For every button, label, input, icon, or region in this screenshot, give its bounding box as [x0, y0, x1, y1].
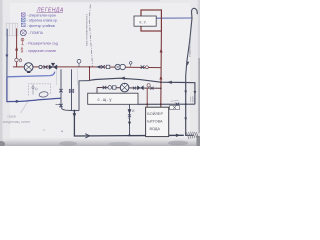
valve X8 on H3: [133, 87, 136, 90]
three-way mixing valve: [49, 63, 57, 70]
small meter box: [170, 106, 180, 110]
manifold box CUU: [88, 93, 138, 104]
node header/R2: [160, 103, 162, 105]
supply drop to return header: [89, 67, 91, 81]
node drop/bottom: [129, 134, 131, 136]
cold water drop: [186, 82, 194, 135]
faint riser VA upper: [56, 69, 58, 86]
node H1/drop: [89, 66, 91, 68]
valve X3 on H1: [141, 65, 145, 68]
node header/drop147: [146, 103, 148, 105]
burner stem inside boiler box: [32, 84, 34, 94]
legend symbol: pump circle: [20, 30, 26, 36]
radiator outline top-left: [6, 23, 18, 36]
filter box 2: [112, 86, 116, 89]
pump P1: [24, 63, 33, 72]
svg-text:студена вода: студена вода: [188, 38, 192, 57]
node H3/R2: [160, 87, 162, 89]
svg-text:кондензац. котел: кондензац. котел: [3, 120, 30, 124]
arrow right on bottom pipe: [85, 134, 90, 138]
riser V1 (return from radiator): [6, 29, 8, 77]
supply header H1: [13, 66, 161, 69]
riser VC: [79, 81, 90, 111]
legend title ЛЕГЕНДА: [36, 8, 64, 14]
legend symbol: valve box 1: [21, 13, 25, 16]
gauge g3: [108, 86, 112, 90]
meter circles on H1: [115, 64, 120, 69]
merge bar: [72, 110, 80, 112]
top blue line to vent: [157, 17, 192, 19]
gas boiler dashed enclosure: [28, 84, 50, 96]
annotation mark: [132, 110, 134, 113]
node header/cold: [185, 103, 187, 105]
gauge g2 on H1: [145, 66, 148, 69]
header H3: [97, 87, 161, 90]
boiler room frame (red box): [141, 10, 161, 31]
drop from H3 to tank: [146, 88, 148, 107]
right recirculation loop: [186, 83, 195, 105]
paper background: [0, 0, 200, 146]
svg-text:- Разширителен съд: - Разширителен съд: [26, 41, 58, 45]
bottom scan shadow band: [0, 137, 200, 146]
filter box on H1: [106, 65, 110, 68]
svg-text:- ПОМПА: - ПОМПА: [28, 31, 43, 35]
arrow left on H4: [120, 77, 125, 80]
bottom-left corner smudge: [0, 141, 5, 147]
arrow up on R2 upper: [160, 48, 163, 52]
valve X5 on drop: [128, 114, 131, 117]
check valve dark: [137, 85, 143, 90]
gauge on V2: [17, 57, 21, 59]
arrow left on H4 right: [167, 81, 172, 84]
gate valve XB: [69, 89, 73, 93]
boiler blob scribble: [39, 91, 49, 97]
riser VB: [71, 69, 73, 110]
boiler tank box: [146, 107, 169, 136]
svg-text:към отоплителна инст.: към отоплителна инст.: [85, 14, 89, 46]
svg-text:БИТОВА: БИТОВА: [147, 120, 163, 124]
valve X4: [103, 86, 107, 89]
valve XA: [59, 89, 62, 92]
svg-text:- спирателен кран: - спирателен кран: [27, 14, 56, 18]
K.U. box: [134, 16, 156, 26]
arrow up on V2: [15, 46, 18, 50]
label leader line: [21, 99, 30, 113]
arrow down on V1: [6, 55, 9, 59]
H3 drop into CUU: [96, 88, 98, 94]
legend symbol: valve box 2: [21, 18, 25, 21]
heating branch centerline: [90, 5, 93, 67]
svg-text:ВОДА: ВОДА: [150, 127, 161, 131]
legend symbol: expansion vessel: [22, 39, 24, 46]
arrow left on H1: [96, 65, 101, 68]
valve X6 on bottom header: [176, 103, 180, 106]
left scan edge: [0, 0, 3, 146]
arrow up on R2 lower: [159, 75, 162, 79]
air vent on H1: [78, 63, 80, 67]
valve X1: [44, 65, 48, 68]
arrow down on cold line: [186, 62, 189, 66]
arrow down on drop: [128, 109, 132, 114]
legend symbol: safety valve: [21, 47, 23, 53]
right scan edge: [198, 0, 200, 146]
CUU bottom drop: [129, 104, 131, 134]
riser VA: [61, 69, 72, 110]
svg-text:БОЙЛЕР: БОЙЛЕР: [147, 112, 163, 116]
node merge: [73, 110, 75, 112]
bottom header y104: [138, 103, 195, 105]
vent pipe with hook: [186, 8, 198, 82]
drain stub with valve: [56, 104, 62, 106]
return line H4: [90, 78, 186, 82]
pump P2: [120, 83, 129, 92]
svg-text:- предпазен клапан: - предпазен клапан: [26, 49, 57, 53]
main down pipe: [74, 111, 183, 136]
svg-text:с.щ.у: с.щ.у: [98, 97, 113, 102]
node H4/R2: [160, 81, 162, 83]
arrow down cold 1: [184, 91, 187, 95]
legend symbol: filter box: [21, 23, 25, 26]
svg-text:- обратна клапа кр.: - обратна клапа кр.: [27, 19, 58, 23]
svg-text:- филтър утайник: - филтър утайник: [27, 24, 56, 28]
riser V2 (supply to radiator): [16, 28, 18, 67]
stray mark: [43, 129, 44, 130]
gauge g4 with stem: [148, 87, 150, 89]
svg-text:газов: газов: [8, 115, 16, 119]
valve X7 on H3: [150, 87, 153, 90]
gauge g1: [39, 65, 42, 68]
valve X2 on H1: [101, 65, 105, 68]
riser R2 from K.U.: [160, 31, 163, 107]
scribble note above header: [171, 100, 179, 101]
faint riser VB upper: [77, 69, 79, 86]
arrow down on main pipe: [73, 113, 77, 118]
arrow down 2 on drop: [128, 122, 131, 126]
squiggle on drop: [129, 119, 130, 120]
return header H2 blue: [7, 72, 55, 77]
arrow right on boiler line: [16, 100, 20, 103]
arrow down on loop: [194, 91, 197, 95]
V1 lower run to boiler: [7, 77, 61, 102]
arrow right on bottom pipe east: [176, 134, 181, 137]
hatch scribble right of tank: [187, 96, 199, 139]
svg-text:К.У.: К.У.: [140, 20, 148, 24]
arrow down cold 2: [184, 118, 187, 122]
